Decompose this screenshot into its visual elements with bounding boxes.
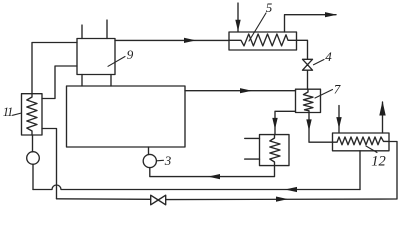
pump 3	[143, 154, 156, 167]
main vessel	[67, 86, 186, 147]
wire 9 to main vessel right	[110, 75, 112, 87]
svg-text:12: 12	[371, 154, 386, 170]
wire exchanger 11 top to 9	[32, 43, 77, 94]
wire main vessel to vessel 7	[185, 90, 296, 92]
flow arrow right on line c	[276, 197, 288, 202]
left stub lower on small exchanger	[245, 158, 260, 160]
flow arrow right to vessel 7	[240, 88, 252, 93]
label 12	[366, 146, 386, 170]
vent stub right on 9	[106, 20, 108, 39]
svg-text:4: 4	[325, 49, 332, 64]
return line b from evaporator 12 bottom with crossing hump	[33, 185, 360, 190]
wire 9 to main vessel left	[81, 75, 83, 87]
feed arrow down into evaporator 12	[338, 106, 340, 133]
pump circle (left)	[27, 152, 40, 165]
label 5	[249, 0, 273, 41]
vessel 7	[296, 89, 321, 112]
valve 4	[303, 59, 313, 70]
wire evaporator 12 bottom to return line	[359, 151, 361, 190]
svg-text:11: 11	[3, 105, 13, 119]
vapour outlet arrow up from evaporator 12	[382, 102, 384, 133]
vent stub left on 9	[81, 25, 83, 39]
heat exchanger 11	[22, 94, 43, 135]
svg-text:7: 7	[334, 82, 341, 97]
cooling inlet arrow into 5	[237, 3, 239, 32]
wire vessel 7 bottom to evaporator 12 with down arrow	[309, 113, 333, 143]
condenser 5	[229, 32, 297, 50]
wire main vessel to pump 3	[148, 147, 150, 155]
svg-text:5: 5	[266, 0, 273, 15]
wire exchanger 11 lower right port down	[42, 129, 57, 199]
supply line c along bottom	[57, 198, 151, 201]
wire valve 4 to vessel 7	[307, 70, 309, 89]
label 7	[315, 82, 341, 99]
bottom valve	[151, 195, 166, 205]
wire 9 lower-left to exchanger 11 upper right port	[42, 66, 77, 99]
flow arrow left on line b	[285, 187, 297, 192]
wire 9 to condenser 5	[115, 39, 229, 41]
small heat exchanger	[260, 135, 290, 166]
label 3	[157, 153, 172, 168]
wire pump down to return line	[32, 164, 34, 189]
svg-text:3: 3	[164, 153, 172, 168]
label 4	[314, 49, 333, 65]
label 11	[3, 105, 22, 119]
flow arrow right to condenser 5	[184, 38, 196, 43]
label 9	[108, 47, 134, 66]
wire vessel 7 to small exchanger with down arrow	[275, 111, 296, 134]
wire exchanger 11 bottom to pump	[32, 135, 34, 152]
left stub upper on small exchanger	[245, 137, 260, 139]
svg-text:9: 9	[127, 47, 134, 62]
evaporator 12	[333, 133, 390, 151]
wire small exchanger to pump 3 with left arrow	[150, 166, 275, 177]
wire condenser 5 to valve 4	[297, 40, 308, 59]
generator vessel 9	[77, 39, 115, 75]
outlet wire from 5 to top right	[285, 15, 337, 32]
